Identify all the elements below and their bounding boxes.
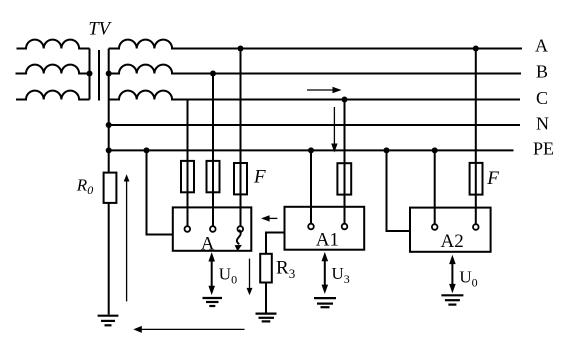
wire phase A to fuse F3 to box A terminal xyxy=(240,49,242,227)
device box A2 xyxy=(410,208,491,252)
svg-text:TV: TV xyxy=(88,20,112,40)
current arrow long left at bottom xyxy=(133,326,244,333)
wire PE to A1 left terminal xyxy=(310,150,312,223)
transformer TV primary winding phase 3 xyxy=(16,91,90,100)
svg-text:C: C xyxy=(536,88,548,108)
wire phase line C xyxy=(171,99,520,101)
ground under U3 of A1 xyxy=(314,298,336,307)
transformer core xyxy=(98,50,100,101)
wire neutral bus down through R0 to earth xyxy=(108,49,110,315)
wire phase B to fuse F2 to box A terminal xyxy=(212,74,214,227)
wire phase A through fuse to A2 right terminal xyxy=(475,49,477,225)
svg-text:N: N xyxy=(536,114,549,134)
fuse F3 xyxy=(234,163,247,194)
svg-text:B: B xyxy=(536,62,548,82)
measurement arrow U0 of A2 xyxy=(449,255,456,294)
node PE tap to box A2 xyxy=(384,147,390,153)
transformer TV secondary winding phase C xyxy=(109,91,172,100)
wire PE to A2 left terminal xyxy=(434,150,436,224)
fuse F of A2 xyxy=(470,163,483,195)
svg-text:R0: R0 xyxy=(76,176,93,198)
ground under U0 of A2 xyxy=(441,295,463,304)
svg-text:F: F xyxy=(253,167,266,188)
ground under R0 xyxy=(98,316,119,326)
node PE tap to box A xyxy=(144,147,150,153)
measurement arrow U3 of A1 xyxy=(322,252,329,294)
node A tap xyxy=(238,46,244,52)
svg-text:F: F xyxy=(486,168,499,189)
node A tap to A2 xyxy=(473,46,479,52)
svg-text:PE: PE xyxy=(533,139,554,159)
node PE tap to A2 left terminal xyxy=(432,147,438,153)
transformer TV secondary winding phase B xyxy=(109,65,172,74)
svg-text:A2: A2 xyxy=(441,231,464,252)
current arrow down from C to PE xyxy=(331,107,337,153)
device box A xyxy=(173,207,252,250)
svg-text:A: A xyxy=(201,234,215,255)
device box A1 xyxy=(285,207,365,250)
svg-text:U0: U0 xyxy=(459,268,477,290)
current arrow down beside box A xyxy=(247,259,253,296)
terminal 2 of box A2 xyxy=(473,224,479,230)
wire phase C to fuse F1 to box A terminal xyxy=(187,100,189,227)
wire neutral line N xyxy=(109,124,520,126)
node C tap to A1 xyxy=(342,97,348,103)
node primary star point xyxy=(87,71,93,77)
node secondary star point xyxy=(106,71,112,77)
svg-text:A: A xyxy=(535,36,548,56)
wire PE to box A2 left side xyxy=(387,150,411,231)
node N to bus junction xyxy=(106,122,112,128)
svg-text:U0: U0 xyxy=(219,265,237,287)
spark gap squiggle arrow in box A xyxy=(235,230,242,252)
ground under R3 xyxy=(256,314,277,322)
fuse F1 xyxy=(181,161,194,192)
node PE to bus junction xyxy=(106,147,112,153)
terminal 1 of box A xyxy=(185,226,191,232)
wire A1 to R3 xyxy=(266,233,285,254)
wire phase line A xyxy=(171,48,522,50)
wire R3 to ground xyxy=(265,283,267,313)
terminal 1 of box A2 xyxy=(432,224,438,230)
node PE tap to A1 left terminal xyxy=(308,147,314,153)
terminal 2 of box A xyxy=(210,226,216,232)
resistor R3 xyxy=(260,254,272,283)
svg-text:R3: R3 xyxy=(276,258,295,282)
wire phase line B xyxy=(171,73,521,75)
transformer TV primary winding phase 2 xyxy=(16,65,90,74)
wire PE to box A xyxy=(147,150,174,234)
node B tap xyxy=(210,71,216,77)
wire primary star bus xyxy=(89,49,91,100)
ground under U0 of box A xyxy=(203,298,223,306)
svg-text:A1: A1 xyxy=(316,230,339,251)
fuse F of A1 xyxy=(337,163,351,194)
current arrow right above line C xyxy=(307,87,342,93)
current arrow left above A1 xyxy=(261,215,277,221)
measurement arrow U0 of box A xyxy=(208,252,215,295)
transformer TV primary winding phase 1 xyxy=(17,40,90,49)
terminal 2 of box A1 xyxy=(342,224,348,230)
fuse F2 xyxy=(207,161,220,192)
terminal 3 of box A xyxy=(238,226,244,232)
wire protective earth line PE xyxy=(109,149,514,151)
transformer TV secondary winding phase A xyxy=(109,40,172,49)
resistor R0 xyxy=(104,173,117,203)
wire phase C through fuse to A1 right terminal xyxy=(344,100,346,224)
terminal 1 of box A1 xyxy=(308,224,314,230)
svg-text:U3: U3 xyxy=(332,264,350,286)
current arrow up beside R0 xyxy=(124,174,130,301)
